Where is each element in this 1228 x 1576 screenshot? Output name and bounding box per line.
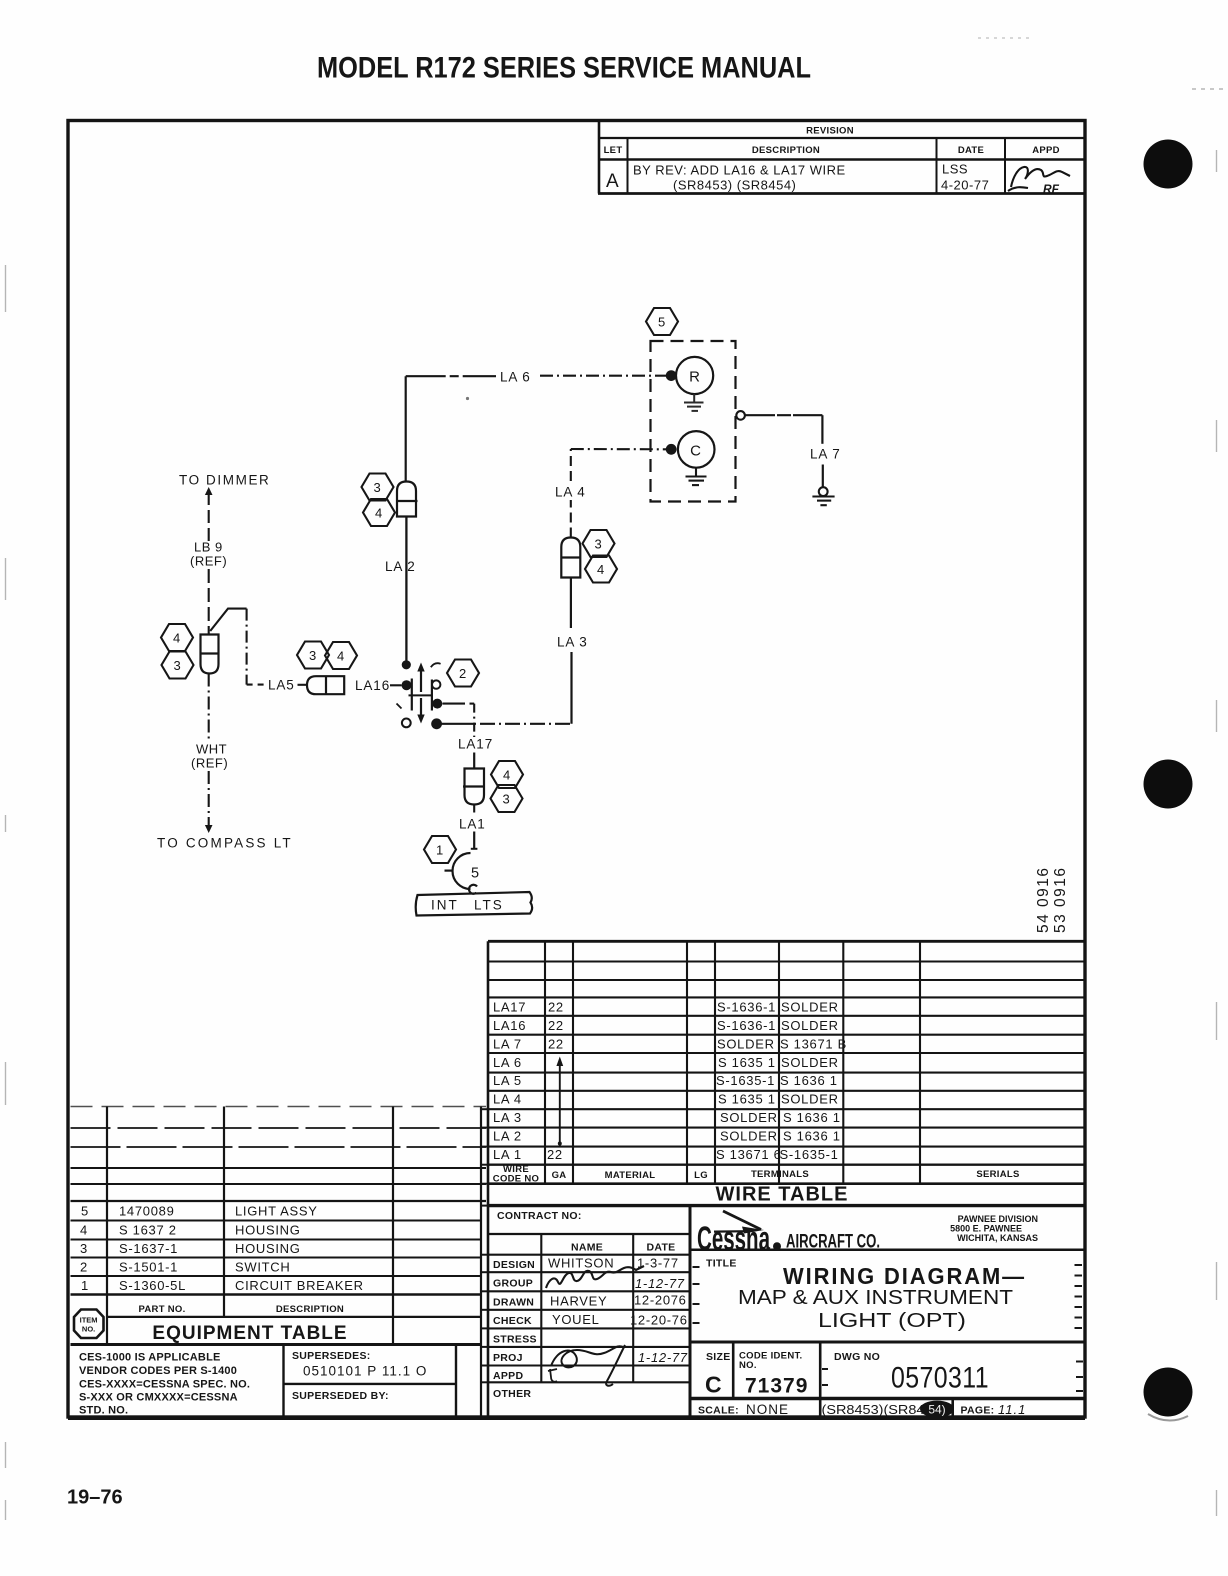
svg-text:APPD: APPD	[493, 1370, 523, 1382]
svg-text:S 13671 B: S 13671 B	[780, 1036, 847, 1051]
svg-text:LA17: LA17	[493, 1000, 526, 1015]
item callout 4 (housing) at J4	[161, 624, 193, 651]
svg-text:LIGHT ASSY: LIGHT ASSY	[235, 1204, 318, 1219]
equipment table grid	[71, 1107, 487, 1418]
svg-text:4-20-77: 4-20-77	[941, 178, 989, 193]
svg-text:ITEM: ITEM	[80, 1316, 98, 1325]
node dot at lamp R	[666, 370, 677, 381]
wire LA3 from switch to connector J2	[442, 723, 477, 725]
svg-text:S-1637-1: S-1637-1	[119, 1241, 178, 1256]
node dot at lamp C	[666, 444, 677, 455]
connector housing J3 (items 3/4)	[307, 676, 344, 694]
svg-text:SOLDER: SOLDER	[781, 1000, 839, 1015]
svg-text:Cessna: Cessna	[697, 1220, 771, 1258]
svg-text:LA 5: LA 5	[493, 1073, 522, 1088]
svg-text:S-1636-1: S-1636-1	[717, 1018, 776, 1033]
svg-text:S 1635 1: S 1635 1	[718, 1055, 776, 1070]
svg-text:PART NO.: PART NO.	[138, 1304, 185, 1315]
svg-text:LA 7: LA 7	[810, 447, 841, 462]
svg-text:LTS: LTS	[474, 898, 504, 913]
svg-text:C: C	[705, 1372, 722, 1398]
svg-text:S 1636 1: S 1636 1	[783, 1110, 841, 1125]
svg-text:1: 1	[436, 843, 444, 858]
svg-text:PAGE:: PAGE:	[961, 1405, 995, 1417]
svg-text:S 1636 1: S 1636 1	[783, 1129, 841, 1144]
wire LA4 horizontal	[571, 448, 666, 450]
wire LB9 lower segment	[208, 569, 210, 635]
svg-text:LET: LET	[604, 145, 623, 156]
svg-text:STRESS: STRESS	[493, 1334, 537, 1346]
svg-text:MAP & AUX INSTRUMENT: MAP & AUX INSTRUMENT	[738, 1287, 1013, 1309]
svg-text:(REF): (REF)	[191, 756, 228, 771]
item callout 3 (housing) at J4	[162, 652, 194, 679]
svg-text:S 1637 2: S 1637 2	[119, 1223, 177, 1238]
item callout 4 at J5	[491, 761, 523, 788]
svg-text:LA17: LA17	[458, 737, 493, 752]
svg-text:LA 6: LA 6	[493, 1055, 522, 1070]
svg-text:1-12-77: 1-12-77	[638, 1350, 688, 1365]
wire LA6 horizontal	[406, 375, 496, 377]
svg-text:4: 4	[375, 506, 383, 521]
wire LA1	[473, 805, 475, 818]
svg-text:LA 3: LA 3	[557, 635, 588, 650]
svg-text:NAME: NAME	[571, 1242, 603, 1254]
svg-text:4: 4	[503, 768, 511, 783]
item callout 1 (circuit breaker)	[424, 836, 456, 863]
connector housing J4 (items 3/4)	[201, 635, 219, 674]
svg-text:DESCRIPTION: DESCRIPTION	[276, 1304, 344, 1315]
terminal pin on light assembly	[736, 411, 745, 420]
svg-text:DESIGN: DESIGN	[493, 1259, 535, 1271]
svg-text:CIRCUIT BREAKER: CIRCUIT BREAKER	[235, 1278, 364, 1293]
svg-text:S 1635 1: S 1635 1	[718, 1092, 776, 1107]
svg-text:HARVEY: HARVEY	[550, 1294, 607, 1309]
svg-text:22: 22	[548, 1018, 564, 1033]
item callout 3 at J2	[583, 530, 615, 557]
svg-text:TERMINALS: TERMINALS	[751, 1169, 809, 1180]
svg-text:LG: LG	[694, 1170, 708, 1181]
svg-text:WHITSON: WHITSON	[548, 1256, 614, 1271]
svg-text:(SR8453) (SR8454): (SR8453) (SR8454)	[673, 178, 796, 193]
svg-text:S-1360-5L: S-1360-5L	[119, 1278, 186, 1293]
svg-text:4: 4	[173, 631, 181, 646]
wire LA2	[405, 517, 407, 662]
connector housing J1 (items 3/4)	[397, 482, 418, 517]
svg-text:LA16: LA16	[493, 1018, 526, 1033]
svg-text:0510101 P 11.1 O: 0510101 P 11.1 O	[303, 1364, 427, 1379]
svg-text:3: 3	[374, 480, 382, 495]
ground under lamp R	[684, 394, 704, 411]
svg-text:0570311: 0570311	[891, 1362, 989, 1395]
svg-text:S-1635-1: S-1635-1	[716, 1073, 775, 1088]
svg-text:11.1: 11.1	[998, 1402, 1026, 1417]
rotated stamp numbers	[1035, 866, 1069, 933]
pawnee division address	[950, 1214, 1038, 1243]
scan speck	[466, 397, 469, 400]
svg-text:19–76: 19–76	[67, 1487, 123, 1509]
svg-text:1: 1	[81, 1278, 89, 1293]
svg-text:AIRCRAFT CO.: AIRCRAFT CO.	[786, 1232, 880, 1253]
wire LA5	[247, 684, 265, 686]
title box edge ticks	[693, 1265, 1084, 1391]
svg-text:CES-XXXX=CESSNA SPEC. NO.: CES-XXXX=CESSNA SPEC. NO.	[79, 1379, 250, 1391]
svg-text:5: 5	[471, 866, 479, 882]
svg-text:53 0916: 53 0916	[1052, 866, 1069, 933]
svg-text:NO.: NO.	[82, 1325, 95, 1334]
cessna logo	[697, 1211, 781, 1258]
svg-text:12-2076: 12-2076	[634, 1293, 687, 1308]
svg-text:WIRING DIAGRAM—: WIRING DIAGRAM—	[783, 1263, 1026, 1289]
svg-text:REVISION: REVISION	[806, 126, 854, 137]
light assembly dashed enclosure (item 5)	[651, 341, 736, 502]
item callout 2 (switch)	[447, 660, 479, 687]
svg-text:SUPERSEDED BY:: SUPERSEDED BY:	[292, 1390, 389, 1402]
item callout 3 at J1	[362, 474, 394, 501]
ground at LA7	[812, 487, 834, 505]
svg-text:LA 3: LA 3	[493, 1110, 522, 1125]
svg-text:LA5: LA5	[268, 678, 295, 693]
svg-text:VENDOR CODES PER S-1400: VENDOR CODES PER S-1400	[79, 1365, 237, 1377]
svg-text:A: A	[606, 171, 619, 192]
svg-text:(REF): (REF)	[190, 554, 227, 569]
svg-text:LSS: LSS	[942, 162, 968, 177]
svg-text:DESCRIPTION: DESCRIPTION	[752, 145, 820, 156]
svg-text:PAWNEE DIVISION: PAWNEE DIVISION	[958, 1214, 1038, 1224]
revision table	[598, 121, 1085, 194]
svg-text:SOLDER: SOLDER	[781, 1055, 839, 1070]
svg-text:LA1: LA1	[459, 817, 486, 832]
svg-text:3: 3	[174, 658, 182, 673]
svg-text:INT: INT	[431, 898, 459, 913]
svg-text:SUPERSEDES:: SUPERSEDES:	[292, 1350, 371, 1362]
ground under lamp C	[686, 468, 707, 485]
svg-text:NO.: NO.	[739, 1360, 757, 1371]
svg-text:LA 7: LA 7	[493, 1036, 522, 1051]
svg-text:LA 2: LA 2	[385, 559, 416, 574]
svg-text:SERIALS: SERIALS	[976, 1169, 1019, 1180]
connector housing J2 (items 3/4)	[561, 538, 580, 578]
switch S1 (item 2)	[397, 660, 443, 729]
svg-text:3: 3	[309, 648, 317, 663]
item callout 4 at J1	[363, 499, 395, 526]
item callout 3 at J5	[491, 785, 523, 812]
svg-text:5: 5	[81, 1204, 89, 1219]
svg-text:3: 3	[503, 792, 511, 807]
svg-text:OTHER: OTHER	[493, 1388, 531, 1400]
svg-text:BY REV: ADD LA16 & LA17 WIRE: BY REV: ADD LA16 & LA17 WIRE	[633, 163, 846, 178]
item callout 5 (light assy)	[646, 308, 678, 335]
svg-text:NONE: NONE	[746, 1402, 789, 1417]
svg-text:(SR8453)(SR84: (SR8453)(SR84	[822, 1402, 925, 1417]
row line stubs left of wire table and title block	[480, 1109, 488, 1382]
svg-text:4: 4	[597, 562, 605, 577]
svg-text:12-20-76: 12-20-76	[630, 1313, 688, 1328]
svg-text:CES-1000 IS APPLICABLE: CES-1000 IS APPLICABLE	[79, 1352, 221, 1364]
svg-text:MATERIAL: MATERIAL	[605, 1170, 656, 1181]
svg-text:GA: GA	[552, 1170, 567, 1181]
wire table grid	[488, 941, 1085, 1418]
svg-text:YOUEL: YOUEL	[552, 1312, 600, 1327]
svg-text:54 0916: 54 0916	[1035, 866, 1052, 933]
svg-text:SIZE: SIZE	[706, 1351, 731, 1363]
svg-text:LA 6: LA 6	[500, 370, 531, 385]
item callout 3 at J3	[297, 642, 329, 669]
svg-text:DWG NO: DWG NO	[834, 1351, 880, 1363]
svg-text:DATE: DATE	[646, 1242, 675, 1254]
svg-text:C: C	[690, 443, 701, 460]
wire LA4 vertical	[570, 500, 572, 538]
svg-text:1-12-77: 1-12-77	[635, 1276, 685, 1291]
svg-text:APPD: APPD	[1032, 145, 1060, 156]
svg-text:22: 22	[547, 1147, 563, 1162]
svg-text:S-1501-1: S-1501-1	[119, 1260, 178, 1275]
svg-text:HOUSING: HOUSING	[235, 1241, 301, 1256]
svg-text:STD. NO.: STD. NO.	[79, 1405, 128, 1417]
svg-text:1470089: 1470089	[119, 1204, 175, 1219]
circuit breaker CB (item 1, 5 amp)	[445, 853, 478, 894]
svg-text:CODE NO: CODE NO	[493, 1174, 539, 1185]
svg-text:22: 22	[548, 1036, 564, 1051]
svg-text:TO COMPASS LT: TO COMPASS LT	[157, 836, 293, 851]
vendor codes note	[79, 1352, 250, 1417]
connector housing J5 (items 4/3)	[463, 769, 484, 805]
svg-text:SWITCH: SWITCH	[235, 1260, 290, 1275]
title block grid	[488, 1206, 1085, 1417]
wire LA6 vertical drop	[405, 376, 407, 481]
wire WHT (REF) to compass light	[208, 674, 210, 742]
punch hole (top right)	[1144, 140, 1193, 189]
svg-text:EQUIPMENT TABLE: EQUIPMENT TABLE	[152, 1323, 347, 1344]
svg-text:WIRE TABLE: WIRE TABLE	[716, 1184, 849, 1206]
svg-text:4: 4	[337, 649, 345, 664]
svg-text:5800 E. PAWNEE: 5800 E. PAWNEE	[950, 1224, 1022, 1234]
ditto arrow in GA column	[559, 1064, 561, 1146]
svg-text:SCALE:: SCALE:	[698, 1405, 739, 1417]
svg-text:SOLDER: SOLDER	[717, 1036, 775, 1051]
svg-text:DATE: DATE	[958, 145, 984, 156]
svg-text:71379: 71379	[745, 1375, 808, 1398]
svg-text:R: R	[689, 369, 700, 386]
wire LB9 to dimmer	[205, 487, 213, 495]
svg-text:LA 2: LA 2	[493, 1129, 522, 1144]
svg-text:LB 9: LB 9	[194, 540, 223, 555]
svg-text:PROJ: PROJ	[493, 1352, 523, 1364]
INT LTS bus banner	[416, 892, 532, 916]
lamp C	[678, 431, 715, 468]
svg-text:TITLE: TITLE	[706, 1258, 737, 1270]
svg-text:HOUSING: HOUSING	[235, 1223, 301, 1238]
svg-text:S-XXX OR CMXXXX=CESSNA: S-XXX OR CMXXXX=CESSNA	[79, 1392, 238, 1404]
svg-text:LA16: LA16	[355, 678, 390, 693]
item no hexagon badge	[74, 1310, 104, 1339]
punch hole (bottom right)	[1144, 1368, 1193, 1417]
svg-text:CHECK: CHECK	[493, 1315, 532, 1327]
svg-text:MODEL R172 SERIES SERVICE MANU: MODEL R172 SERIES SERVICE MANUAL	[317, 52, 811, 85]
item callout 4 at J3	[325, 642, 357, 669]
svg-text:RF: RF	[1043, 182, 1060, 196]
svg-text:GROUP: GROUP	[493, 1278, 533, 1290]
svg-text:LA 4: LA 4	[493, 1092, 522, 1107]
item callout 4 at J2	[585, 556, 617, 583]
svg-text:S 1636 1: S 1636 1	[780, 1073, 838, 1088]
svg-text:SOLDER: SOLDER	[781, 1092, 839, 1107]
svg-text:4: 4	[80, 1223, 88, 1238]
svg-text:2: 2	[80, 1260, 88, 1275]
svg-text:CONTRACT NO:: CONTRACT NO:	[497, 1210, 582, 1222]
wire branch to LA5 (bend)	[210, 609, 246, 631]
svg-text:SOLDER: SOLDER	[720, 1129, 778, 1144]
svg-text:LA 4: LA 4	[555, 485, 586, 500]
svg-text:2: 2	[459, 666, 467, 681]
svg-text:WICHITA, KANSAS: WICHITA, KANSAS	[957, 1233, 1038, 1243]
punch hole (middle right)	[1144, 760, 1193, 809]
svg-text:54): 54)	[928, 1403, 945, 1417]
svg-text:3: 3	[595, 537, 603, 552]
lamp R	[676, 357, 713, 394]
svg-text:SOLDER: SOLDER	[720, 1110, 778, 1125]
wire LA17 from switch	[443, 703, 466, 705]
svg-text:S-1635-1: S-1635-1	[780, 1147, 839, 1162]
svg-text:WHT: WHT	[196, 742, 227, 757]
revision row A approval signature	[1008, 167, 1070, 191]
svg-text:SOLDER: SOLDER	[781, 1018, 839, 1033]
svg-text:22: 22	[548, 1000, 564, 1015]
svg-text:3: 3	[80, 1241, 88, 1256]
svg-text:5: 5	[658, 315, 666, 330]
svg-text:1-3-77: 1-3-77	[637, 1256, 679, 1271]
svg-text:TO DIMMER: TO DIMMER	[179, 473, 270, 488]
svg-text:S-1636-1: S-1636-1	[717, 1000, 776, 1015]
wire LA7	[745, 414, 822, 416]
svg-text:DRAWN: DRAWN	[493, 1297, 534, 1309]
svg-text:LA 1: LA 1	[493, 1147, 522, 1162]
svg-text:LIGHT (OPT): LIGHT (OPT)	[818, 1310, 966, 1332]
svg-text:S 13671 6: S 13671 6	[716, 1147, 782, 1162]
